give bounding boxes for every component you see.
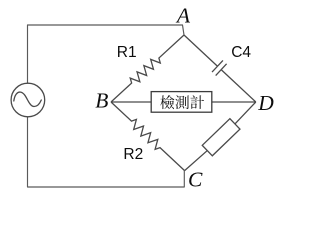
detector label 檢測計 — [160, 95, 174, 109]
svg-text:R2: R2 — [123, 146, 143, 163]
resistor R1 (between A and B) — [111, 35, 184, 102]
impedance box body — [202, 119, 240, 156]
resistor R2 (between B and C) — [111, 102, 185, 171]
detector box — [151, 92, 212, 113]
svg-text:B: B — [95, 89, 108, 113]
detector wires B to D — [111, 101, 151, 103]
svg-text:D: D — [257, 91, 274, 115]
wire bottom: source to node C — [28, 116, 185, 187]
wire top: source to node A — [28, 25, 185, 84]
svg-text:C4: C4 — [231, 44, 251, 61]
AC source V — [11, 83, 45, 117]
capacitor C4 (between A and D): wires — [184, 35, 217, 66]
impedance box (between C and D): wires — [185, 151, 208, 171]
svg-text:A: A — [175, 4, 191, 28]
svg-text:C: C — [188, 168, 203, 192]
svg-text:R1: R1 — [117, 44, 137, 61]
capacitor C4 plates — [212, 60, 223, 72]
